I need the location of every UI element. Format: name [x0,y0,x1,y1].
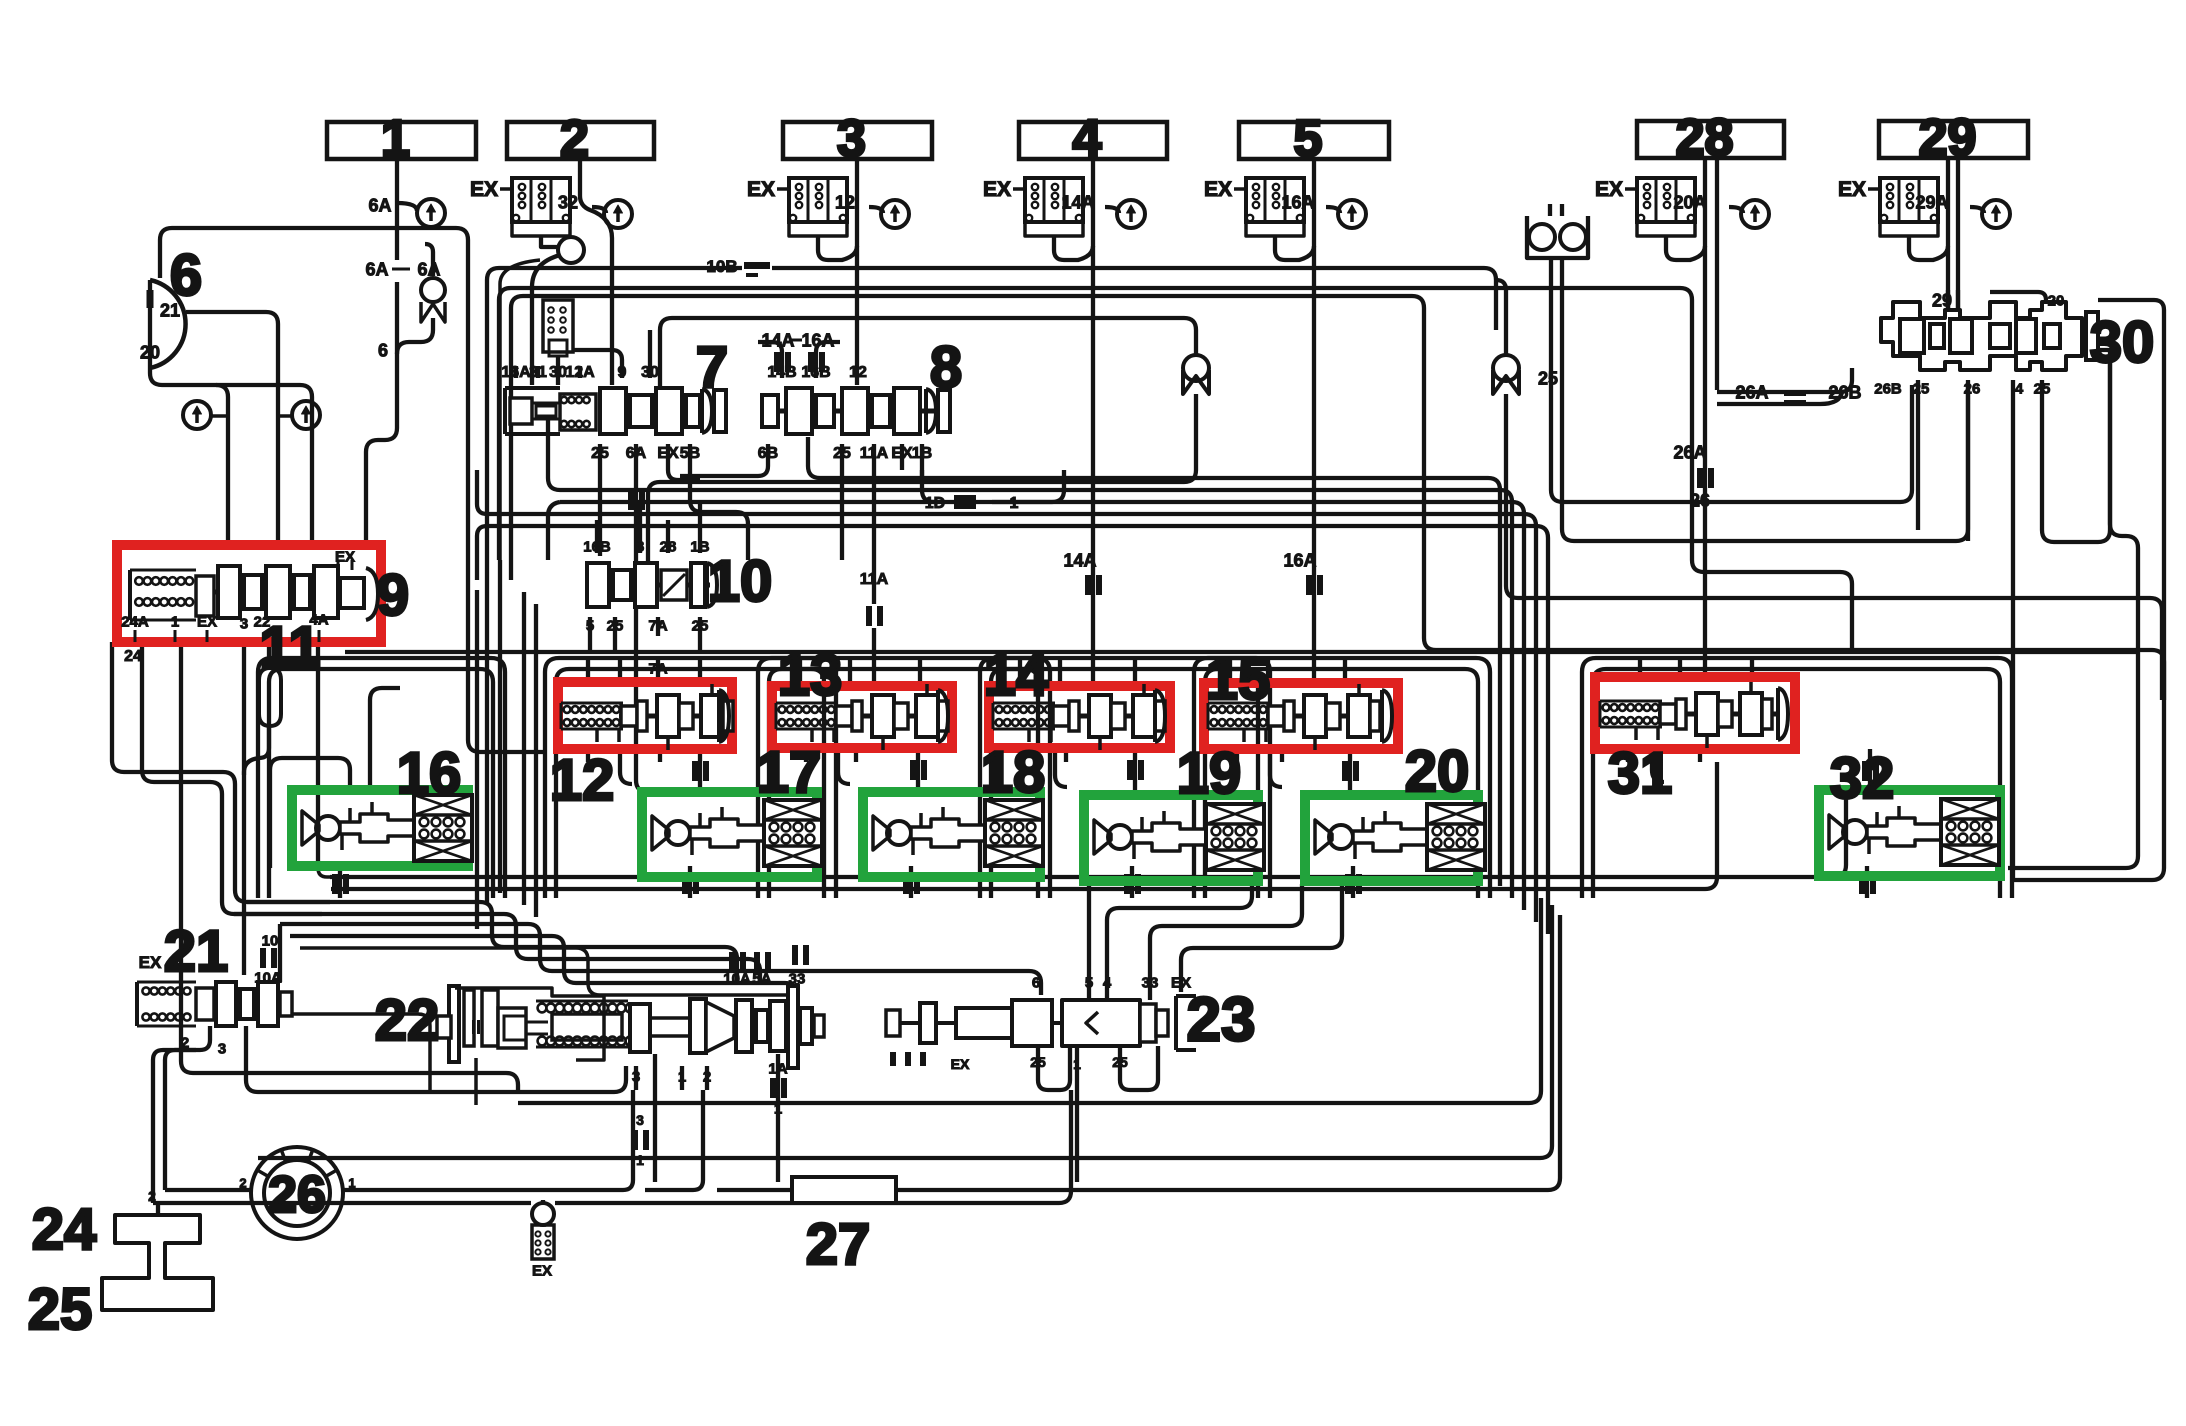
bundle left risers [548,420,560,490]
valve 30 wires [1946,290,1950,312]
gauge 28 [1741,200,1769,228]
svg-text:20A: 20A [1673,192,1706,212]
svg-text:14B: 14B [767,364,796,381]
svg-text:14A: 14A [761,330,794,350]
svg-text:1: 1 [171,613,179,630]
wire 26A-26B to valve 30 [1717,368,1852,392]
svg-text:7A: 7A [648,617,667,634]
header box 5 [1239,122,1389,159]
bus line y1190 right [717,1188,792,1192]
valve 10 port wires [595,520,599,553]
svg-text:10: 10 [262,932,279,949]
capsule orifice 11 [259,668,281,726]
green highlight box 16 [292,790,468,866]
bus line y1102 [518,898,1541,1103]
pump line right [343,1090,633,1190]
svg-text:26: 26 [1964,380,1981,397]
twin pressure switches [1527,216,1588,258]
valve 9 spool assembly [128,570,132,620]
valve 31 [1600,700,1662,703]
valve 23 assembly [886,1010,900,1036]
svg-text:21: 21 [164,919,229,984]
EX relief stub [541,1200,545,1203]
bus bundle mid [820,478,1500,886]
svg-text:28: 28 [1676,109,1734,167]
svg-text:5A: 5A [752,970,771,987]
pilot block under 2 [543,300,573,352]
svg-text:29: 29 [1932,290,1952,310]
svg-text:3: 3 [636,1112,644,1128]
svg-text:20: 20 [2048,292,2065,309]
pump line left [165,1050,196,1190]
valve 12 [561,702,623,705]
svg-text:28: 28 [660,538,677,555]
valve 23 top wires [1087,881,1091,1000]
green16 top wires [270,758,350,868]
svg-text:25: 25 [1538,368,1558,388]
header box 3 [783,122,932,159]
svg-text:1: 1 [381,110,410,168]
svg-text:16: 16 [397,741,462,806]
wire header29 drop [1946,158,1950,312]
svg-text:12A: 12A [565,364,595,381]
svg-text:5: 5 [586,617,594,634]
gauge 3 [881,200,909,228]
group loop 16 [258,658,505,898]
svg-text:EX: EX [139,953,162,972]
svg-text:16A: 16A [1281,192,1314,212]
valve 20 [1315,820,1332,854]
svg-text:12: 12 [835,192,855,212]
bus band lower [330,792,1846,877]
svg-text:5: 5 [1294,110,1323,168]
bus line y1203 [153,1201,531,1205]
svg-text:EX: EX [1595,178,1623,201]
svg-text:2: 2 [560,110,589,168]
svg-text:26A: 26A [1673,442,1706,462]
svg-text:EX: EX [1204,178,1232,201]
svg-text:6: 6 [378,340,388,360]
red highlight box 31 [1595,677,1795,749]
svg-text:27: 27 [806,1212,871,1277]
pilot loop wide [500,260,540,560]
svg-text:24A: 24A [121,613,149,630]
svg-text:13: 13 [778,643,843,708]
svg-text:10B: 10B [706,257,737,276]
svg-text:32: 32 [558,192,578,212]
wire header1 drop [395,159,399,260]
svg-text:14A: 14A [1061,192,1094,212]
svg-text:EX: EX [657,445,679,462]
svg-text:2: 2 [181,1034,189,1051]
svg-text:10A: 10A [723,970,751,987]
svg-text:1: 1 [1010,495,1019,512]
pump 26 [264,1160,330,1226]
valve 7 port drops [598,444,602,556]
svg-text:11: 11 [259,615,320,680]
group loop 31-32 [1582,658,2012,898]
svg-text:30: 30 [2090,310,2155,375]
green highlight box 20 [1305,795,1478,881]
svg-text:9: 9 [377,563,409,628]
svg-text:16A: 16A [801,330,834,350]
EX relief bottom [532,1203,554,1225]
green box bottom drops [338,866,342,898]
svg-text:25: 25 [1112,1054,1128,1070]
red highlight box 14 [989,686,1170,748]
svg-text:EX: EX [197,613,217,630]
svg-text:29A: 29A [1915,192,1948,212]
svg-text:EX: EX [891,445,913,462]
svg-text:7A: 7A [648,660,667,677]
svg-text:33: 33 [1142,974,1159,991]
svg-text:2: 2 [703,1068,711,1085]
svg-text:4: 4 [2015,380,2024,397]
svg-text:3: 3 [240,615,248,632]
svg-text:18: 18 [981,740,1046,805]
gauge 4 [1117,200,1145,228]
svg-text:22: 22 [375,988,440,1053]
svg-text:16A: 16A [501,364,531,381]
svg-text:24: 24 [32,1197,97,1262]
gauge comp6 left [183,401,211,429]
svg-text:30: 30 [549,364,567,381]
svg-text:1: 1 [348,1176,355,1191]
tank 24 25 [102,1215,213,1310]
svg-text:6A: 6A [365,259,388,279]
wire header3 drop [855,159,859,385]
svg-text:25: 25 [28,1277,93,1342]
svg-text:26A: 26A [1735,382,1768,402]
wire header4 drop [1091,159,1095,686]
svg-text:16B: 16B [583,538,611,555]
svg-text:32: 32 [1830,746,1895,811]
svg-text:6A: 6A [417,259,440,279]
group loop 14-19 [980,658,1270,898]
red highlight box 13 [772,686,952,748]
svg-text:17: 17 [757,740,822,805]
tank wire [156,1203,160,1215]
svg-text:3: 3 [837,110,866,168]
svg-text:19: 19 [1177,741,1242,806]
component 6 accumulator [148,280,152,368]
svg-text:4: 4 [1073,110,1102,168]
bus rail y652 [345,650,2140,654]
wire header28 drop [1703,158,1707,390]
svg-text:25: 25 [833,445,851,462]
svg-text:1: 1 [1073,1056,1081,1072]
valve 17 [652,816,669,850]
svg-text:EX: EX [983,178,1011,201]
valve 7 spool assembly [503,388,507,434]
valve 23 bottom wires [1038,1046,1070,1090]
gauge 29 [1982,200,2010,228]
svg-text:26: 26 [1690,490,1710,510]
verticals feeding staircases [498,560,502,893]
check valve 6A under header1 [425,244,433,276]
header box 29 [1879,121,2028,158]
svg-text:EX: EX [532,1262,552,1279]
wire comp6 right port [186,312,278,545]
header box 28 [1637,121,1784,158]
svg-text:EX: EX [951,1056,970,1072]
svg-text:25: 25 [692,617,709,634]
valve 19 [1094,820,1111,854]
svg-text:2: 2 [148,1188,156,1204]
valve 14 [993,702,1055,705]
svg-text:4: 4 [1103,974,1112,991]
svg-text:6: 6 [170,243,202,308]
svg-text:26B: 26B [1874,380,1902,397]
svg-text:1: 1 [774,1100,782,1117]
svg-text:1D: 1D [925,495,945,512]
wire header5 drop [1312,159,1316,683]
gauge comp6 right [292,401,320,429]
svg-text:29: 29 [1919,109,1977,167]
svg-text:1B: 1B [912,445,932,462]
svg-text:1A: 1A [768,1060,787,1077]
header box 2 [507,122,654,159]
valve 13 [776,702,838,705]
svg-text:25: 25 [1030,1054,1046,1070]
gauge 5 [1338,200,1366,228]
svg-text:10A: 10A [254,969,282,986]
group loop 15-20 [1194,658,1490,898]
valve 21 assembly [135,982,139,1026]
svg-text:6: 6 [1032,974,1040,991]
svg-text:12: 12 [550,748,615,813]
svg-text:31: 31 [529,364,547,381]
svg-text:3: 3 [218,1040,226,1057]
svg-text:33: 33 [789,970,806,987]
valve 8 port drops [680,444,768,476]
check valve B and wires [1493,355,1519,381]
svg-text:20: 20 [1405,739,1470,804]
red highlight box 15 [1204,683,1398,749]
svg-text:5: 5 [1085,974,1093,991]
wire header2 drop [578,159,582,196]
gauge stub 1 [397,203,417,211]
svg-text:12: 12 [849,364,867,381]
svg-text:6A: 6A [626,445,647,462]
svg-text:1: 1 [678,1068,686,1085]
svg-text:26B: 26B [1828,382,1861,402]
svg-text:14: 14 [984,643,1049,708]
valve 8 spool assembly [760,409,940,414]
wire 25 drops from twin switches [1551,258,1912,502]
bus line B2 [499,288,511,560]
wire comp6 bottom port [150,368,312,545]
svg-text:5B: 5B [680,445,700,462]
svg-text:EX: EX [1838,178,1866,201]
svg-text:EX: EX [335,548,355,565]
check valve A and wires [1183,355,1209,381]
header box 4 [1019,122,1167,159]
svg-text:16B: 16B [801,364,830,381]
svg-text:11A: 11A [860,571,889,588]
coupler 1D-1 [922,470,938,502]
valve 30 assembly [1881,302,2082,370]
green highlight box 19 [1084,795,1258,881]
svg-text:EX: EX [470,178,498,201]
svg-text:23: 23 [1187,985,1256,1054]
valve 18 [873,816,890,850]
svg-text:3: 3 [632,1068,640,1085]
red box top feeds [586,660,590,682]
left risers from valve9 [112,642,330,902]
svg-text:11A: 11A [860,445,889,462]
svg-text:25: 25 [1913,380,1930,397]
svg-text:25: 25 [591,445,609,462]
svg-text:25: 25 [607,617,624,634]
green highlight box 32 [1819,790,2000,876]
svg-text:8: 8 [930,335,962,400]
pilot junction ball [558,237,584,263]
svg-text:6B: 6B [758,445,778,462]
svg-text:7: 7 [696,335,728,400]
connectors red to green [620,749,632,784]
svg-text:24: 24 [124,648,142,665]
valve 10 spool assembly [585,583,710,588]
valve 22 assembly [449,986,459,1062]
valve 22 bottom wires [634,1066,638,1090]
bus line y1158 [258,905,1552,1158]
svg-text:20: 20 [140,342,160,362]
valve 15 [1208,702,1270,705]
gauge 1 [417,199,445,227]
gauge 2 [604,200,632,228]
svg-text:31: 31 [1608,741,1673,806]
bus line 10B [487,268,499,905]
svg-text:9: 9 [618,364,627,381]
svg-text:6A: 6A [368,195,391,215]
valve 16 [302,811,319,845]
valve 32 [1829,815,1846,849]
header box 1 [327,122,476,159]
svg-text:26: 26 [268,1166,326,1224]
svg-text:EX: EX [747,178,775,201]
green highlight box 17 [642,792,817,877]
red highlight box 9 [117,545,381,642]
group loop 12-17 [545,658,836,898]
bus line B3 [511,296,523,580]
right edge verticals [2008,356,2138,868]
filter 27 [792,1177,896,1203]
red box bottom stubs [586,749,590,762]
svg-text:10: 10 [708,549,773,614]
wire comp6 top loop [160,228,545,752]
svg-text:2: 2 [239,1176,246,1191]
svg-text:25: 25 [2034,380,2051,397]
valve 21 wires [278,924,282,982]
svg-text:16A: 16A [1283,550,1316,570]
svg-text:1: 1 [636,1152,644,1168]
svg-text:15: 15 [1206,647,1271,712]
red highlight box 12 [558,682,732,749]
group loop 13-18 [758,658,1050,898]
svg-text:14A: 14A [1063,550,1096,570]
svg-text:30: 30 [641,364,659,381]
svg-text:8: 8 [636,538,644,555]
green highlight box 18 [863,792,1040,877]
